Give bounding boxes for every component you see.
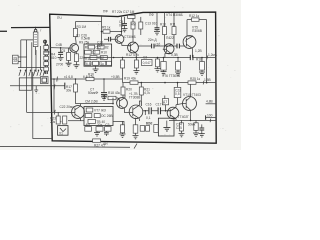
svg-text:П422: П422 — [166, 36, 174, 40]
resistor R25 in rail — [188, 81, 196, 84]
svg-text:ПФ: ПФ — [103, 10, 108, 14]
svg-text:50мкФ: 50мкФ — [88, 91, 98, 95]
resistor R21 — [139, 83, 143, 106]
svg-text:С5: С5 — [61, 49, 65, 53]
junction antenna — [35, 27, 37, 29]
svg-text:С13 910: С13 910 — [145, 22, 157, 26]
capacitor C25 with ground — [199, 124, 205, 137]
svg-text:R20: R20 — [126, 87, 132, 91]
resistor bottom frame — [93, 139, 101, 142]
small boxes mid bottom — [140, 122, 153, 132]
tick volume wiper — [54, 110, 55, 115]
svg-text:ОС 26В: ОС 26В — [101, 114, 113, 118]
wire VT3 collector riser — [132, 17, 134, 42]
svg-text:30к: 30к — [66, 88, 72, 92]
tick output right — [209, 119, 212, 123]
ground left small — [34, 86, 38, 93]
sub-box detector top — [187, 20, 207, 83]
tick bottom frame — [134, 144, 137, 149]
svg-text:R25 1к: R25 1к — [190, 77, 201, 81]
wire speaker return vertical — [33, 72, 52, 139]
wire measure stub 1 — [206, 103, 217, 105]
tick volume riser — [53, 84, 56, 89]
box bias — [158, 118, 174, 136]
transistor VT5 — [183, 36, 196, 58]
resistor R6h collector load — [102, 30, 122, 33]
svg-text:ПЧ: ПЧ — [57, 16, 62, 20]
wire vertical volume line — [27, 111, 54, 113]
wire VT9 base riser — [164, 96, 166, 99]
svg-text:х1б: х1б — [155, 43, 160, 47]
capacitor C13 with ground — [154, 12, 160, 34]
junction VT2 collector — [121, 31, 123, 33]
capacitor C16s — [149, 107, 151, 114]
wire rail junction — [101, 31, 103, 33]
svg-text:82: 82 — [105, 46, 109, 50]
switch S1 lower bar — [19, 77, 46, 79]
resistor R20 — [121, 83, 125, 98]
resistor R3 — [73, 28, 77, 43]
resistor R17 — [74, 78, 81, 103]
wire AGC line left long — [10, 85, 65, 87]
wire volume riser — [53, 79, 55, 112]
resistor R4 — [67, 48, 71, 63]
svg-text:VT6 ГТ305В: VT6 ГТ305В — [162, 74, 180, 78]
resistor R26 — [179, 120, 185, 136]
svg-text:22н Д: 22н Д — [148, 38, 157, 42]
svg-text:1к: 1к — [101, 62, 105, 66]
tick coil tap — [56, 77, 59, 82]
capacitor C21 electrolytic — [63, 116, 67, 124]
svg-text:R9: R9 — [85, 46, 89, 50]
resistor R7 in rail — [128, 15, 135, 18]
transistor VT2 — [115, 35, 124, 46]
svg-text:С22 20мк: С22 20мк — [60, 105, 75, 109]
ground R16v — [175, 72, 181, 75]
erase gap C19 — [191, 57, 192, 59]
svg-text:С17: С17 — [156, 102, 162, 106]
capacitor C16 — [177, 44, 179, 49]
wire VT7 emitter to block — [68, 120, 84, 122]
svg-text:0,5: 0,5 — [175, 92, 180, 96]
ground under block — [94, 131, 100, 136]
antenna rod WA1 — [33, 28, 38, 55]
capacitor C14 — [152, 44, 154, 49]
wire VT4 emitter — [163, 58, 165, 62]
svg-text:С16: С16 — [146, 102, 152, 106]
svg-text:С1: С1 — [13, 58, 17, 62]
coil return outline — [19, 78, 32, 90]
svg-text:20х: 20х — [97, 123, 103, 127]
junction rail — [103, 78, 105, 80]
wire VT2 emitter to VT3 base — [122, 45, 129, 47]
capacitor C24 — [193, 120, 199, 136]
svg-text:R10: R10 — [101, 51, 107, 55]
wire from switch to frame — [44, 51, 50, 53]
svg-text:VT10 ГТ403: VT10 ГТ403 — [183, 93, 201, 97]
junction IF line — [113, 57, 115, 59]
svg-text:R12 1к: R12 1к — [189, 14, 200, 18]
wire filter output — [83, 57, 85, 59]
svg-text:ГТ402Г: ГТ402Г — [178, 115, 189, 119]
svg-text:С4В: С4В — [56, 43, 62, 47]
svg-text:1,2мВ: 1,2мВ — [208, 53, 217, 57]
junction VT4 — [163, 57, 165, 59]
resistor R11 — [172, 12, 176, 44]
switch SA1 gang column — [44, 40, 49, 74]
svg-text:0,5: 0,5 — [119, 23, 124, 27]
svg-text:50мк: 50мк — [188, 122, 196, 126]
ground in box — [163, 121, 170, 131]
svg-text:20к: 20к — [50, 120, 56, 124]
wire IF line long — [84, 57, 216, 59]
resistor R13 — [134, 58, 138, 71]
svg-text:R5 1к: R5 1к — [102, 26, 111, 30]
wire VT6 emitter to VT8 — [125, 109, 130, 113]
ground C5 — [58, 57, 64, 60]
rail audio right — [123, 79, 217, 83]
svg-text:х1 6,8: х1 6,8 — [64, 75, 73, 79]
output line bottom — [169, 119, 216, 121]
svg-text:1,2В: 1,2В — [195, 49, 202, 53]
filter block Z1 outline — [84, 44, 112, 66]
junction VT6 base — [112, 103, 114, 105]
resistor R19 in rail — [130, 81, 138, 84]
wire block bottom — [113, 122, 124, 125]
svg-text:П306В: П306В — [192, 29, 202, 33]
coil L4 box on frame — [41, 77, 49, 84]
resistor R14v — [155, 58, 161, 73]
svg-text:Д1 С26: Д1 С26 — [76, 34, 87, 38]
wire VT2 collector riser — [121, 17, 123, 35]
capacitor C23 — [133, 118, 139, 139]
wire VT5 base net — [139, 45, 186, 47]
svg-text:АН: АН — [103, 142, 108, 146]
coil block L2 outline — [27, 40, 32, 112]
transistor VT6 — [117, 98, 128, 109]
capacitor C1 box — [13, 55, 19, 64]
wire emitter VT1 down — [76, 54, 78, 55]
svg-text:АН: АН — [85, 123, 90, 127]
wire switch column top — [35, 50, 37, 72]
wire C1 to coils — [18, 57, 27, 62]
transistor VT10 — [182, 84, 197, 120]
ground R13 — [133, 71, 139, 74]
resistor R16 in rail — [86, 77, 94, 80]
scan noise — [10, 5, 236, 143]
svg-text:R18 43к: R18 43к — [108, 91, 120, 95]
capacitor C17s — [158, 107, 160, 114]
junction output — [190, 120, 192, 122]
page artifact dash left edge — [0, 31, 7, 32]
ground R15 — [161, 72, 167, 75]
resistor R8b column — [139, 17, 143, 35]
svg-text:С25: С25 — [176, 126, 182, 130]
resistor R27 box — [162, 99, 168, 111]
svg-text:R12 4,7к: R12 4,7к — [126, 53, 139, 57]
wire VT9 base net — [143, 110, 170, 112]
wire measure stub 2 — [206, 115, 217, 119]
svg-text:СЗ: СЗ — [143, 55, 147, 59]
junction rail VT10 — [206, 82, 208, 84]
wire bottom of coil section — [18, 67, 44, 69]
transistor VT9 — [167, 105, 179, 121]
svg-text:0,1: 0,1 — [146, 116, 151, 120]
wire VT1 base input — [50, 47, 66, 49]
transistor VT7 — [72, 104, 85, 121]
svg-text:4,8В: 4,8В — [206, 100, 213, 104]
tick IF line right — [206, 56, 209, 60]
main frame border — [50, 12, 217, 143]
resistor R16v — [176, 58, 181, 73]
svg-text:6,8 47к: 6,8 47к — [83, 75, 94, 79]
svg-text:R7 22к С17 1М: R7 22к С17 1М — [112, 10, 135, 14]
svg-text:Х1: Х1 — [59, 131, 63, 135]
ground R18v — [199, 72, 205, 75]
svg-text:0,3В: 0,3В — [171, 53, 178, 57]
capacitor C9 with ground — [122, 17, 128, 32]
junction dot base VT1 — [60, 47, 62, 49]
svg-text:2700: 2700 — [56, 62, 63, 66]
svg-text:R18: R18 — [196, 57, 202, 61]
transistor VT4 — [163, 44, 174, 58]
svg-text:220: 220 — [80, 56, 86, 60]
resistor R15 box — [161, 62, 166, 72]
page artifact line bottom — [0, 145, 130, 148]
svg-text:6,8: 6,8 — [86, 62, 91, 66]
switch S1 contact row — [19, 71, 45, 76]
junction volume — [53, 78, 55, 80]
svg-text:+: + — [60, 120, 62, 124]
transistor VT1 — [66, 44, 79, 55]
capacitor C5 branch — [60, 48, 62, 52]
svg-text:VT7 ЖЗ: VT7 ЖЗ — [94, 109, 106, 113]
svg-text:+0,5В: +0,5В — [111, 75, 120, 79]
resistor R18v — [200, 58, 205, 73]
svg-text:22н: 22н — [97, 44, 103, 48]
svg-text:R3 1М: R3 1М — [77, 25, 87, 29]
transistor VT8 — [129, 101, 143, 121]
svg-text:R9 75к: R9 75к — [79, 41, 90, 45]
resistor R14 in sub-box — [192, 18, 200, 21]
capacitor C8 into VT2 base — [104, 37, 117, 42]
resistor R12 — [121, 58, 125, 80]
wire VT6 collector — [113, 95, 125, 104]
svg-text:VT4 П306Б: VT4 П306Б — [166, 13, 183, 17]
svg-text:СМ 2,6В: СМ 2,6В — [85, 100, 98, 104]
resistor R6 — [74, 54, 78, 65]
wire antenna input horizontal — [11, 26, 50, 28]
ground filter — [93, 66, 99, 72]
transistor VT3 — [128, 42, 139, 53]
box phone jack — [58, 126, 68, 136]
resistor R24 — [120, 121, 126, 137]
ground VT1 emitter — [73, 65, 79, 68]
wire volume to VT7 base — [54, 111, 72, 113]
svg-text:R24: R24 — [146, 122, 152, 126]
inner rail VT1 supply — [75, 15, 101, 48]
paper background — [0, 0, 241, 150]
svg-text:С12: С12 — [98, 56, 104, 60]
resistor R22h with ground — [102, 95, 119, 100]
rail audio left — [50, 78, 122, 80]
junction rail dots — [164, 82, 166, 84]
svg-text:ПФ: ПФ — [149, 13, 154, 17]
svg-text:СТ306Б: СТ306Б — [124, 35, 136, 39]
junction rail right — [141, 82, 143, 84]
svg-text:R19 43к: R19 43к — [124, 77, 136, 81]
svg-text:100: 100 — [207, 113, 213, 117]
driver block T1 grid — [84, 107, 113, 126]
wire VT3 emitter down — [135, 53, 137, 58]
svg-text:810: 810 — [51, 56, 57, 60]
boxed cap C20 — [174, 83, 181, 105]
ground R4 — [66, 63, 72, 66]
resistor R23 — [56, 112, 60, 124]
capacitor C7 electrolytic — [97, 79, 108, 100]
svg-text:4,7к: 4,7к — [144, 91, 151, 95]
capacitor C19 on IF line — [190, 55, 193, 60]
wire VT9 to VT10 base — [176, 104, 182, 105]
tick rail right — [202, 81, 205, 85]
svg-text:АМ: АМ — [131, 23, 136, 27]
capacitor small box lower — [154, 125, 158, 133]
svg-text:1,5В: 1,5В — [204, 78, 211, 82]
wire VT7 collector line — [81, 103, 114, 105]
switch S1 contact dots — [20, 70, 46, 71]
resistor R10 — [163, 12, 167, 46]
svg-text:0,047: 0,047 — [143, 61, 151, 65]
svg-text:+1,7В: +1,7В — [129, 92, 138, 96]
output row boxes — [85, 123, 111, 131]
junction VT9 base — [165, 110, 167, 112]
capacitor C4 plate — [64, 83, 66, 90]
resistor R8a on riser — [131, 22, 135, 29]
wire contact riser — [39, 46, 41, 70]
svg-text:R11: R11 — [170, 23, 176, 27]
cap under block — [104, 131, 109, 136]
coil block L1 outline — [21, 40, 33, 68]
switch column top circle — [44, 40, 47, 43]
svg-text:ДТ: ДТ — [163, 100, 167, 104]
svg-text:R10: R10 — [160, 23, 166, 27]
